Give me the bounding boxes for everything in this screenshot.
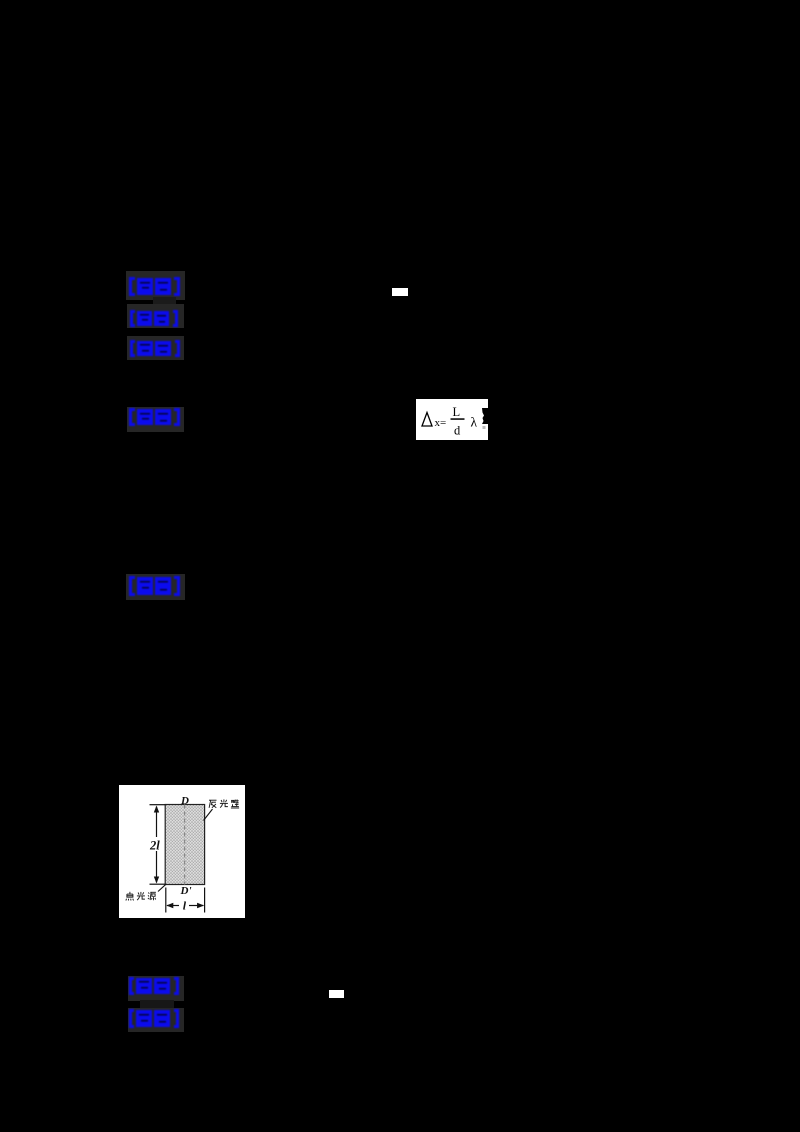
svg-text:D': D' xyxy=(180,885,192,897)
svg-text:2l: 2l xyxy=(149,839,160,853)
svg-text:λ: λ xyxy=(471,415,478,430)
white dash A xyxy=(392,288,408,296)
blue label row 3 halo xyxy=(127,336,184,360)
blue label row 4 halo xyxy=(127,407,184,432)
bottom tick xyxy=(150,883,166,885)
blue label row 6 xyxy=(129,977,179,1000)
blue label row 5 xyxy=(129,576,180,601)
blue label row 1 halo xyxy=(126,271,185,300)
blue label row 4 xyxy=(129,408,180,431)
blue label row 3 xyxy=(130,340,180,362)
fraction bar xyxy=(451,418,465,420)
blue label row 1 xyxy=(129,277,180,301)
svg-text:l: l xyxy=(183,899,187,913)
label fan-guang-bi (reflecting wall) xyxy=(209,799,239,808)
halo bridge rows 1-2 xyxy=(153,297,176,305)
hatched wall rectangle xyxy=(165,805,204,885)
halo bridge rows 6-7 xyxy=(140,1000,174,1009)
white dash B xyxy=(329,990,344,998)
leader to wall xyxy=(204,809,213,821)
bottom right tick xyxy=(204,888,206,913)
diagram image xyxy=(119,785,245,918)
blue label row 6 halo xyxy=(128,976,184,1001)
leader from point source label xyxy=(158,884,166,891)
blue label row 2 halo xyxy=(127,304,184,328)
label dian-guang-yuan (point source) xyxy=(126,892,156,901)
blue label row 5 halo xyxy=(126,574,185,600)
triangle delta xyxy=(422,413,432,427)
blue label row 2 xyxy=(130,310,178,332)
bottom left tick xyxy=(165,888,167,913)
svg-text:L: L xyxy=(453,405,461,419)
svg-text:D: D xyxy=(180,795,189,807)
dim line 2l vertical arrow (with gap for label) xyxy=(156,807,158,838)
blue label row 7 xyxy=(129,1009,179,1033)
top tick xyxy=(150,804,166,806)
bottom dim arrow (with gap for label) xyxy=(167,905,179,907)
svg-text:d: d xyxy=(454,424,461,438)
svg-text:x=: x= xyxy=(435,417,447,429)
clipped char at right edge xyxy=(482,408,488,424)
dashed center line DD' xyxy=(184,805,186,885)
blue label row 7 halo xyxy=(128,1008,184,1032)
formula image box xyxy=(416,399,488,440)
